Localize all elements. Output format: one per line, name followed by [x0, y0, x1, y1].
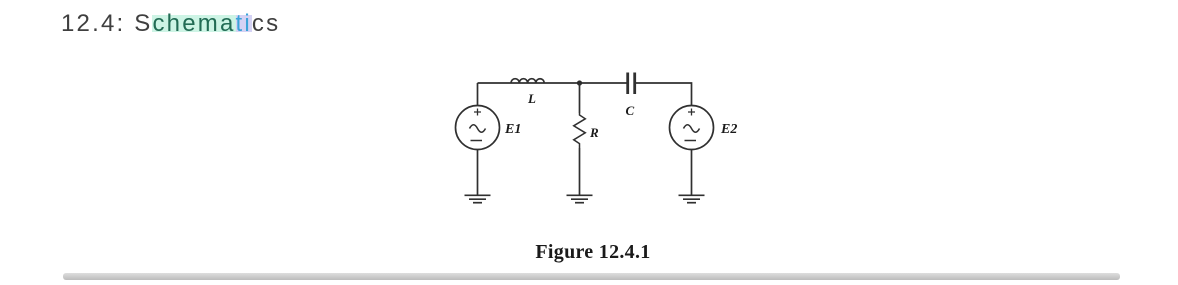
- node junction dot: [577, 80, 582, 85]
- ground (R): [567, 195, 593, 202]
- svg-text:E1: E1: [504, 122, 521, 137]
- wire rail capacitor to E2 corner: [636, 83, 692, 106]
- svg-text:R: R: [589, 125, 599, 140]
- ground (E1): [465, 195, 491, 202]
- wire E2 bottom to ground: [691, 150, 693, 196]
- wire top rail left (E1 top corner to inductor): [478, 82, 512, 84]
- caption Figure 12.4.1: [4, 241, 1178, 264]
- wire junction to resistor: [579, 83, 581, 113]
- heading 12.4: Schematics: [61, 10, 280, 38]
- ground (E2): [679, 195, 705, 202]
- svg-text:L: L: [527, 91, 536, 106]
- wire rail inductor to capacitor: [544, 82, 627, 84]
- wire E1 top stub: [477, 83, 479, 106]
- capacitor C: [628, 73, 635, 95]
- voltage source E2: [670, 106, 714, 150]
- wire resistor bottom to ground: [579, 148, 581, 195]
- wire E1 bottom to ground: [477, 150, 479, 196]
- resistor R: [574, 113, 586, 148]
- inductor L: [511, 79, 544, 83]
- svg-text:C: C: [626, 103, 635, 118]
- svg-text:E2: E2: [720, 122, 737, 137]
- voltage source E1: [456, 106, 500, 150]
- bottom divider bar: [63, 273, 1120, 280]
